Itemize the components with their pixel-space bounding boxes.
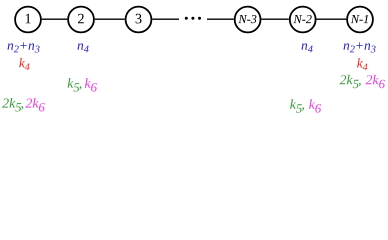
label 2k5 (green) under node N-1 (340, 75, 361, 89)
label n4 under node N-2 (302, 43, 313, 52)
wire nodeN-3-nodeN-2 (261, 18, 289, 20)
node N-3 (235, 7, 261, 33)
label n2+n3 under node N-1 (344, 42, 376, 52)
label k6 (magenta) under node 2 (85, 78, 97, 92)
label 2k6 (magenta) bottom left (26, 98, 45, 112)
node 1 (15, 7, 41, 33)
label k5 (green) under node 2 (68, 78, 82, 92)
label n4 under node 2 (78, 43, 89, 52)
node 2 (68, 7, 94, 33)
label k5 (green) under node N-2 (290, 99, 304, 113)
label 2k6 (magenta) under node N-1 (366, 75, 385, 89)
node N-1 (347, 7, 373, 33)
label 2k5 (green) bottom left (2, 98, 23, 112)
label n2+n3 under node 1 (8, 42, 40, 52)
label k4 right (357, 58, 367, 70)
wire node1-node2 (42, 18, 67, 20)
node 3 (126, 7, 152, 33)
label k4 left (19, 58, 29, 70)
label k6 (magenta) under node N-2 (309, 99, 321, 113)
wire node3-ellipsis (152, 18, 179, 20)
wire nodeN-2-nodeN-1 (317, 18, 347, 20)
node N-2 (290, 7, 316, 33)
wire node2-node3 (95, 18, 125, 20)
wire ellipsis-nodeN-3 (207, 18, 234, 20)
ellipsis dots (185, 17, 201, 20)
